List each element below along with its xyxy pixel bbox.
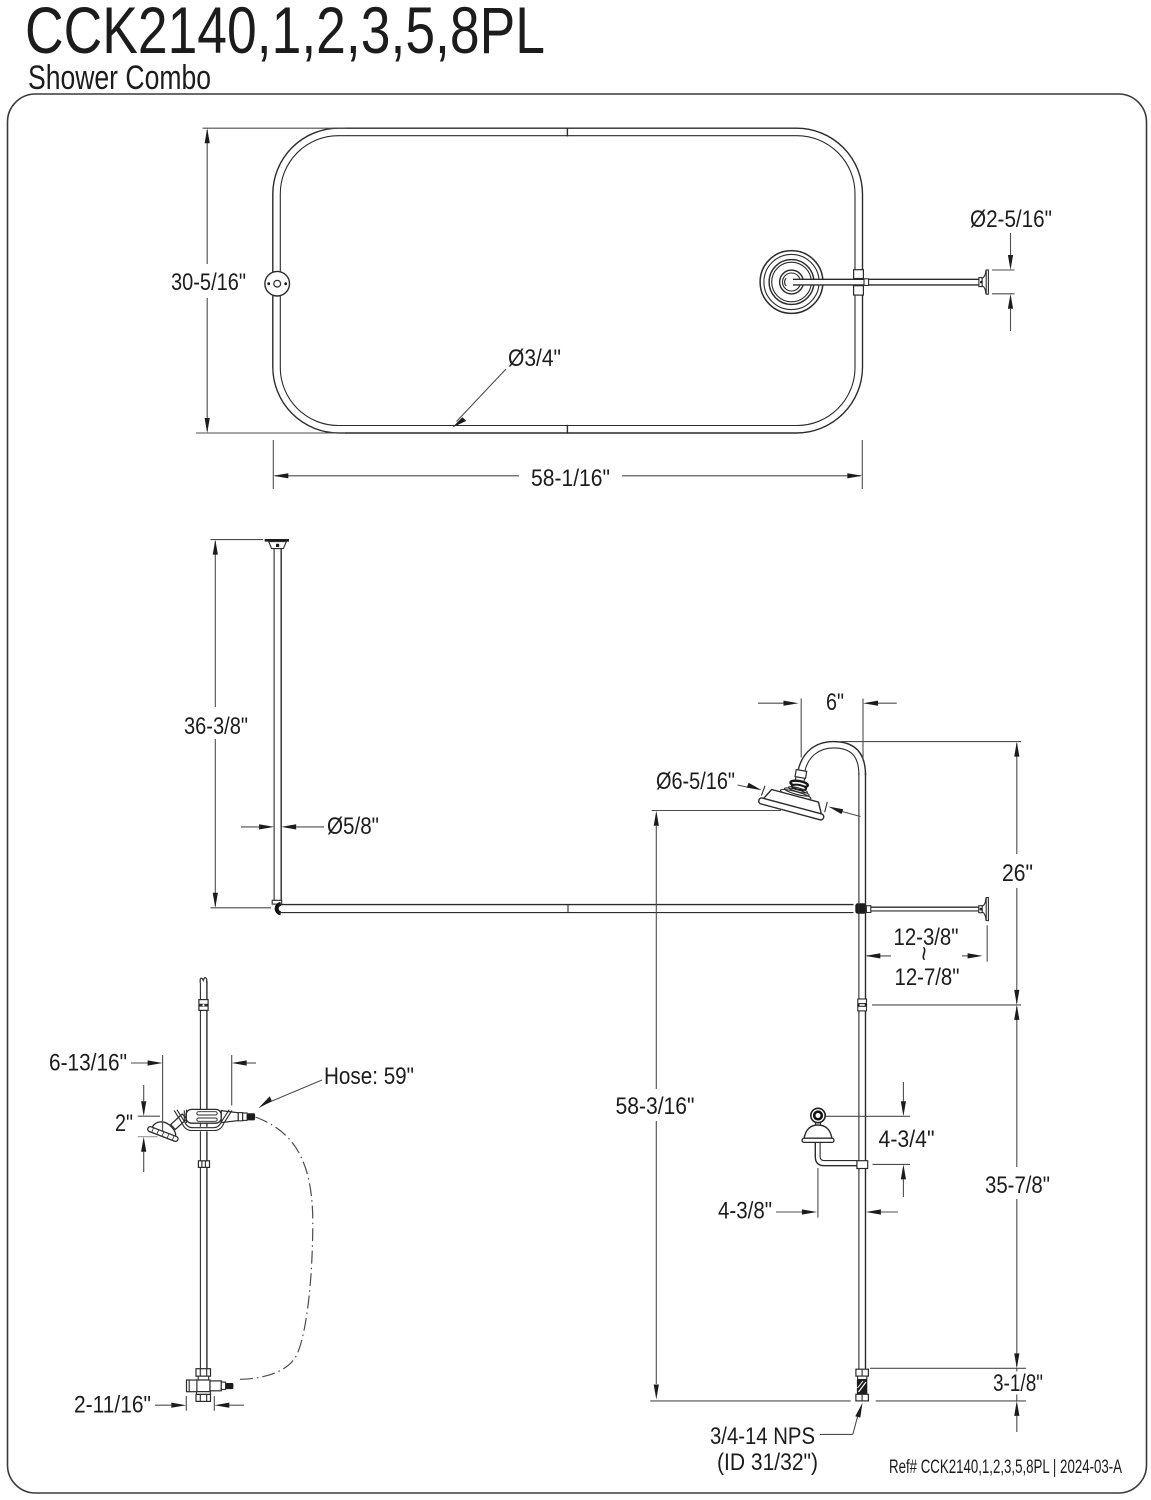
dim 36-3/8 extension bottom xyxy=(211,907,272,909)
shower head plan view concentric rings xyxy=(760,251,823,314)
slide bar pipe xyxy=(199,981,201,1369)
wall supply knob xyxy=(811,1108,825,1122)
dim 6 extension left xyxy=(800,699,802,758)
bottom tee left port xyxy=(187,1380,197,1392)
dim 58-1/16 line xyxy=(275,475,519,477)
dim 3-1/8 extension at pipe end xyxy=(1016,1368,1018,1371)
curtain rail top view inner tube line xyxy=(280,136,855,426)
rail joint tick top center xyxy=(566,128,568,137)
label 3/4-14 NPS leader xyxy=(820,1433,853,1435)
ceiling flange screw dot xyxy=(276,544,279,547)
svg-text:2-11/16": 2-11/16" xyxy=(74,1392,151,1419)
dim 6-13/16 extension lines xyxy=(162,1055,164,1131)
dim Ø2-5/16 arrows outside xyxy=(1010,233,1012,255)
ceiling flange bar xyxy=(265,539,289,542)
curtain rail elevation left section xyxy=(279,904,854,906)
dim 6 extension right xyxy=(862,699,864,761)
diameter witness tick right xyxy=(825,802,828,812)
diverter valve on riser xyxy=(857,1161,868,1169)
dim 4-3/4 outside arrows xyxy=(902,1082,904,1101)
dim 4-3/8 extension line below supply pipe xyxy=(817,1168,819,1218)
dim 2 outside arrows xyxy=(143,1085,145,1101)
rail joint tick elevation xyxy=(567,905,569,913)
svg-text:Hose: 59": Hose: 59" xyxy=(324,1063,414,1090)
gooseneck crook xyxy=(798,742,865,775)
svg-text:Ø6-5/16": Ø6-5/16" xyxy=(656,768,735,795)
svg-text:3-1/8": 3-1/8" xyxy=(993,1370,1043,1397)
dim 30-5/16 line xyxy=(206,130,208,264)
shower head body (tilted) xyxy=(758,779,829,821)
dim 36-3/8 extension top xyxy=(211,539,264,541)
dim 6 line with outside arrows xyxy=(758,702,784,704)
svg-text:58-3/16": 58-3/16" xyxy=(616,1093,695,1120)
leader Ø6-5/16 lower arrow xyxy=(842,812,860,817)
dim 35-7/8 extension bottom at fitting xyxy=(870,1367,1026,1369)
dim 58-1/16 extension line left xyxy=(272,440,274,489)
dim 26 extension top at crook apex xyxy=(841,741,1021,743)
svg-text:58-1/16": 58-1/16" xyxy=(531,465,610,492)
curtain ring eyelet on left rail xyxy=(265,271,290,296)
label Hose: 59 leader xyxy=(266,1080,322,1104)
slide bar coupling xyxy=(199,1000,208,1011)
shower arm plan view xyxy=(793,279,979,285)
dim 30-5/16 extension line bottom xyxy=(196,432,345,434)
dim Ø2-5/16 extension lines xyxy=(992,269,1015,271)
arm clamp on rail top view xyxy=(854,270,864,279)
bottom tee lower nut xyxy=(197,1392,211,1395)
dim 6-13/16 outside arrows xyxy=(131,1062,148,1064)
dim Ø5/8 arrows at drop rod xyxy=(241,826,259,828)
dim 2-11/16 outside arrows xyxy=(155,1404,171,1406)
svg-text:30-5/16": 30-5/16" xyxy=(171,269,246,296)
svg-text:6-13/16": 6-13/16" xyxy=(49,1050,127,1077)
ceiling drop rod xyxy=(273,549,275,901)
dim 58-3/16 / 3-1/8 extension bottom xyxy=(650,1400,850,1402)
svg-text:Ø5/8": Ø5/8" xyxy=(327,813,379,840)
svg-text:4-3/4": 4-3/4" xyxy=(879,1126,935,1153)
svg-text:CCK2140,1,2,3,5,8PL: CCK2140,1,2,3,5,8PL xyxy=(25,0,545,67)
shower head connector nuts and ball joint xyxy=(789,769,810,791)
svg-text:26": 26" xyxy=(1002,860,1033,887)
riser bottom coupling xyxy=(856,1369,869,1376)
dim 2 extension lines xyxy=(138,1115,160,1117)
dim 4-3/4 extension top at knob xyxy=(826,1115,910,1117)
hand shower cradle xyxy=(175,1110,230,1129)
dim 26 line xyxy=(1016,744,1018,855)
svg-text:Ref# CCK2140,1,2,3,5,8PL | 202: Ref# CCK2140,1,2,3,5,8PL | 2024-03-A xyxy=(889,1457,1122,1478)
rail joint tick bottom center xyxy=(566,425,568,434)
leader Ø3/4 xyxy=(457,369,507,422)
diameter witness tick left xyxy=(761,785,765,795)
curtain rail top view outer tube xyxy=(273,128,863,433)
dim 4-3/4 extension bottom at valve xyxy=(873,1163,911,1165)
dim 35-7/8 line xyxy=(1016,1007,1018,1167)
rod-to-rail elbow xyxy=(277,904,281,913)
hose dash-dot line xyxy=(237,1117,313,1379)
svg-text:3/4-14 NPS: 3/4-14 NPS xyxy=(710,1423,815,1450)
svg-text:Ø3/4": Ø3/4" xyxy=(508,345,561,372)
ceiling flange escutcheon xyxy=(269,542,287,549)
svg-text:Ø2-5/16": Ø2-5/16" xyxy=(970,206,1052,233)
dim 2-11/16 extension ticks xyxy=(185,1396,187,1411)
supply drop pipe with elbow to riser xyxy=(815,1142,857,1165)
wall supply knob neck xyxy=(815,1122,817,1126)
riser pipe xyxy=(858,773,860,1369)
riser bottom nut xyxy=(856,1394,869,1401)
bottom tee hex coupling xyxy=(196,1369,211,1377)
svg-text:2": 2" xyxy=(115,1110,133,1137)
svg-text:6": 6" xyxy=(826,689,844,716)
curtain rail elevation right section xyxy=(871,906,979,908)
svg-text:~: ~ xyxy=(910,946,937,961)
hand shower neck to head xyxy=(171,1114,187,1130)
hand shower outlet cone xyxy=(221,1111,238,1123)
dim 36-3/8 line xyxy=(214,542,216,708)
svg-text:(ID 31/32"): (ID 31/32") xyxy=(717,1449,818,1476)
dim 3-1/8 bottom outside arrow xyxy=(1014,1401,1019,1416)
dim 58-3/16 extension top at head face xyxy=(652,810,781,812)
wall supply escutcheon bell xyxy=(804,1125,832,1139)
bottom tee right port xyxy=(210,1381,221,1391)
slide bar top cap xyxy=(200,978,207,983)
dim 26 / 35-7/8 extension middle xyxy=(872,1004,1021,1006)
dim 12-3/8 ~ 12-7/8 extension right xyxy=(986,925,988,961)
drop rod collar xyxy=(272,900,282,904)
dim 4-3/8 leader and outside arrows xyxy=(776,1211,802,1213)
riser union coupling xyxy=(858,999,867,1004)
dim 30-5/16 extension line top xyxy=(203,127,346,129)
hand shower grip xyxy=(186,1109,221,1123)
svg-text:12-7/8": 12-7/8" xyxy=(895,964,960,991)
bottom tee body xyxy=(197,1380,210,1392)
svg-text:35-7/8": 35-7/8" xyxy=(985,1172,1050,1199)
slide clamp xyxy=(198,1161,209,1168)
svg-text:Shower Combo: Shower Combo xyxy=(28,59,211,97)
svg-text:4-3/8": 4-3/8" xyxy=(718,1198,772,1225)
hand shower head dome xyxy=(147,1118,182,1143)
leader Ø6-5/16 upper arrow xyxy=(738,785,750,788)
rail wall flange elevation xyxy=(979,906,982,913)
svg-text:36-3/8": 36-3/8" xyxy=(184,713,248,740)
wall flange plan view xyxy=(979,278,982,287)
bottom tee neck xyxy=(198,1376,209,1380)
dim 12-3/8 ~ 12-7/8 line xyxy=(867,955,891,957)
hand shower neck rings xyxy=(184,1110,186,1123)
dim 58-1/16 extension line right xyxy=(861,440,863,489)
hose nut xyxy=(247,1113,255,1120)
dim 58-3/16 line xyxy=(655,826,657,1089)
rail riser clamp xyxy=(855,903,866,913)
threaded nipple 3/4-14 NPS xyxy=(857,1380,867,1395)
